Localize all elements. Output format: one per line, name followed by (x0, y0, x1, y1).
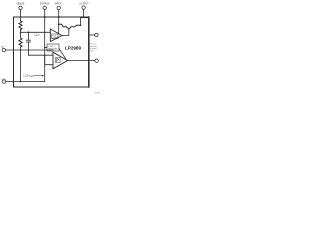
node input pin dot (58, 16, 60, 18)
svg-text:OUTPUT: OUTPUT (79, 4, 89, 6)
node ref feedback crossing (44, 32, 46, 34)
svg-text:INPUT: INPUT (55, 3, 63, 6)
svg-text:to pin: to pin (89, 50, 94, 53)
svg-text:GND: GND (1, 79, 6, 81)
wire T8 to comparator (6, 49, 53, 51)
wire top edge bus (81, 16, 89, 18)
wire GND rail (6, 81, 45, 83)
wire R1 to node A (20, 30, 22, 33)
node cap tap (28, 32, 30, 34)
annotation arrow 1.23 VREF (34, 75, 43, 77)
transistor Q1 pass PNP (59, 24, 81, 29)
svg-text:VREF: VREF (52, 38, 57, 40)
wire feedback to error amp (21, 31, 51, 33)
node divider crossing (20, 49, 22, 51)
IC body box U1 LP2989 (14, 17, 89, 87)
node emitter tap (58, 23, 60, 25)
svg-text:CBYP: CBYP (34, 32, 41, 37)
wire R2 top (20, 32, 22, 38)
node GND junction (20, 81, 22, 83)
node bypass pin dot (44, 16, 46, 18)
flag symbol box (56, 57, 61, 62)
terminal OUTPUT T4 (82, 6, 85, 9)
wire ref feed (45, 47, 47, 49)
svg-text:LP2989: LP2989 (65, 46, 82, 51)
svg-text:SENSE: SENSE (16, 3, 25, 6)
comparator U3 error flag (53, 52, 68, 69)
svg-text:BANDGAP: BANDGAP (48, 48, 58, 51)
wire T4 down (83, 9, 85, 17)
wire comparator plus input (45, 55, 53, 64)
reference box 1.23V (52, 34, 58, 39)
resistor R1 (19, 21, 22, 30)
wire output staircase (80, 17, 82, 25)
wire T6 stub (89, 34, 94, 36)
node cap junction (28, 49, 30, 51)
node collector junction (80, 25, 82, 27)
node ref crossing (44, 54, 46, 56)
voltage reference block (47, 44, 59, 51)
svg-text:1.23 VREF: 1.23 VREF (23, 75, 34, 78)
wire cap stub down (28, 50, 30, 55)
terminal ERROR T7 (95, 59, 98, 62)
terminal SD T8 (2, 48, 5, 51)
capacitor C1 top lead (28, 32, 30, 40)
wire reference diagonal (59, 49, 66, 60)
wire ERROR output (68, 60, 95, 62)
wire R2 to ground rail (20, 47, 22, 82)
resistor R2 (19, 38, 22, 47)
terminal GND T5 (2, 80, 5, 83)
svg-text:BYPASS: BYPASS (40, 3, 50, 6)
terminal INPUT T3 (57, 6, 60, 9)
terminal OUT right T6 (95, 33, 98, 36)
terminal SENSE T1 (19, 6, 22, 9)
wire T3 down (58, 10, 60, 34)
wire right edge emphasized (88, 17, 90, 87)
wire T1 down (20, 10, 22, 21)
capacitor C1 bottom lead (28, 42, 30, 50)
terminal BYPASS T2 (43, 6, 46, 9)
op-amp U2 error amplifier (50, 29, 62, 42)
wire T2 down reference line (44, 10, 46, 82)
svg-text:012493: 012493 (95, 93, 100, 95)
wire Q1 base to amp output (62, 29, 69, 35)
node A feedback (20, 32, 22, 34)
capacitor C1 plates (26, 39, 30, 41)
wire comparator minus input (29, 54, 54, 56)
